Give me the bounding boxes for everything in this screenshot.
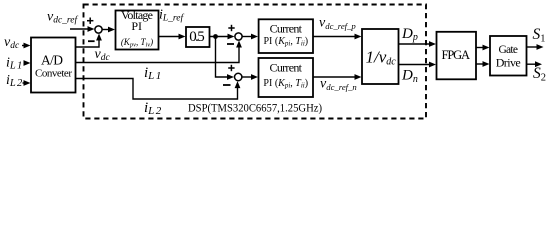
svg-text:Current: Current <box>270 22 303 36</box>
svg-text:Conveter: Conveter <box>35 68 72 80</box>
svg-text:iL1: iL1 <box>144 65 163 82</box>
svg-text:S1: S1 <box>533 26 546 45</box>
svg-text:Drive: Drive <box>496 56 521 70</box>
svg-text:vdc_ref_n: vdc_ref_n <box>320 76 357 92</box>
svg-text:iL2: iL2 <box>6 73 24 89</box>
svg-text:vdc: vdc <box>95 47 111 63</box>
svg-text:0.5: 0.5 <box>189 29 205 45</box>
svg-text:vdc_ref: vdc_ref <box>47 9 78 25</box>
svg-text:DSP(TMS320C6657,1.25GHz): DSP(TMS320C6657,1.25GHz) <box>188 100 322 114</box>
svg-text:Dp: Dp <box>401 26 418 43</box>
svg-text:Dn: Dn <box>401 68 418 85</box>
svg-text:PI: PI <box>131 19 142 33</box>
svg-text:iL1: iL1 <box>6 56 24 72</box>
svg-text:vdc_ref_p: vdc_ref_p <box>319 16 356 32</box>
svg-text:Current: Current <box>270 61 303 75</box>
svg-text:vdc: vdc <box>4 35 20 51</box>
svg-text:Gate: Gate <box>498 44 518 56</box>
svg-text:iL2: iL2 <box>144 100 163 117</box>
svg-text:FPGA: FPGA <box>442 48 471 62</box>
svg-text:iL_ref: iL_ref <box>159 8 184 24</box>
svg-text:A/D: A/D <box>41 53 63 68</box>
svg-text:S2: S2 <box>533 65 546 84</box>
